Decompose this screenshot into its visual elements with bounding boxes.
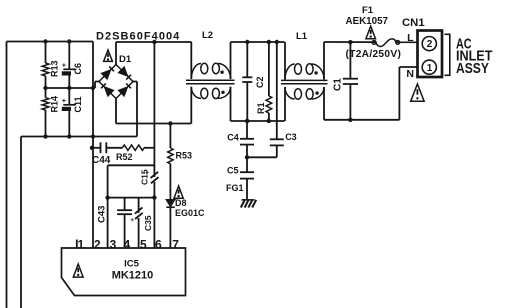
svg-text:C15: C15	[140, 169, 150, 185]
svg-text:4: 4	[124, 237, 131, 251]
svg-text:C5: C5	[227, 166, 239, 176]
svg-text:C2: C2	[255, 76, 265, 88]
svg-text:R53: R53	[176, 151, 193, 161]
svg-text:2: 2	[427, 39, 433, 50]
svg-text:CN1: CN1	[402, 17, 425, 29]
svg-text:C35: C35	[143, 215, 153, 231]
svg-text:ASSY: ASSY	[456, 60, 489, 77]
svg-text:L2: L2	[202, 30, 213, 41]
svg-text:C4: C4	[227, 133, 239, 143]
svg-text:C6: C6	[73, 63, 83, 75]
svg-text:1: 1	[77, 237, 84, 251]
svg-text:AEK1057: AEK1057	[346, 16, 389, 27]
svg-text:D2SB60F4004: D2SB60F4004	[96, 31, 180, 43]
svg-text:R13: R13	[50, 60, 60, 77]
svg-text:N: N	[406, 68, 414, 80]
svg-text:R14: R14	[50, 96, 60, 113]
svg-text:L: L	[407, 32, 414, 44]
svg-text:C11: C11	[73, 96, 83, 112]
svg-text:3: 3	[110, 237, 117, 251]
svg-text:C1: C1	[332, 78, 343, 91]
svg-text:R1: R1	[256, 102, 266, 114]
svg-text:1: 1	[427, 63, 433, 74]
svg-text:L1: L1	[296, 31, 308, 42]
svg-text:F1: F1	[362, 5, 374, 16]
svg-text:+: +	[62, 63, 66, 70]
svg-text:(T2A/250V): (T2A/250V)	[346, 49, 402, 60]
svg-text:FG1: FG1	[226, 183, 244, 193]
svg-text:IC5: IC5	[124, 259, 140, 270]
svg-text:5: 5	[140, 237, 147, 251]
svg-text:C44: C44	[92, 155, 111, 166]
svg-text:+: +	[130, 217, 134, 224]
svg-text:+: +	[62, 98, 66, 105]
svg-text:D1: D1	[119, 54, 132, 65]
svg-text:6: 6	[155, 237, 162, 251]
svg-text:MK1210: MK1210	[112, 270, 154, 282]
svg-text:R52: R52	[116, 152, 133, 162]
svg-text:C43: C43	[97, 206, 108, 223]
svg-text:7: 7	[172, 237, 179, 251]
svg-text:D8: D8	[175, 198, 187, 208]
svg-text:EG01C: EG01C	[175, 208, 205, 218]
svg-text:2: 2	[94, 237, 101, 251]
svg-text:C3: C3	[285, 132, 297, 142]
